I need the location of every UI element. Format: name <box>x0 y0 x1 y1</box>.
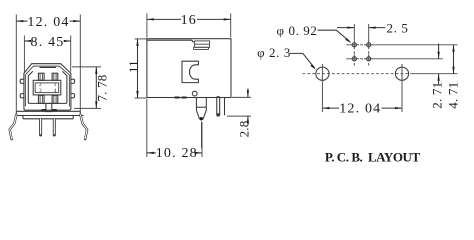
front view flange <box>16 111 84 115</box>
side view latch window <box>182 61 198 82</box>
front view solder pin right <box>53 119 56 135</box>
dimension 8.45 front view <box>24 35 70 72</box>
dimension 12.04 pcb <box>322 102 402 117</box>
svg-text:2. 71: 2. 71 <box>429 82 444 109</box>
leader dia 0.92 <box>318 30 352 43</box>
dimension 2.5 pcb <box>337 21 408 41</box>
pcb small hole top-left <box>350 40 359 49</box>
front view center bottom tab <box>46 103 52 111</box>
pcb large hole right <box>395 64 408 112</box>
side view rear step and latch catch <box>192 40 209 49</box>
svg-text:8. 45: 8. 45 <box>31 35 65 50</box>
pcb small hole top-right <box>364 40 373 49</box>
svg-text:2.8: 2.8 <box>236 121 251 138</box>
front view contact slot bottom-left <box>38 95 44 103</box>
dimension 4.71 pcb <box>445 45 460 109</box>
front view side latch tab lower-right <box>71 94 75 98</box>
dimension 7.78 front view right <box>72 67 110 109</box>
svg-text:4: 4 <box>54 88 57 94</box>
front view contact slot bottom-right <box>52 95 58 103</box>
side view pin stubs on bottom line <box>175 97 180 99</box>
front view base plate <box>23 116 73 119</box>
side view rear pin edge <box>224 98 226 116</box>
front view contact slot top-right <box>52 73 58 80</box>
pcb large hole left <box>316 64 329 112</box>
pcb small hole bottom-right <box>364 54 373 61</box>
dimension 11 side view <box>126 39 147 98</box>
svg-text:7. 78: 7. 78 <box>95 75 110 102</box>
dimension 2.71 pcb <box>429 44 444 109</box>
side view locating peg <box>196 98 206 121</box>
front view left mounting leg <box>10 115 17 139</box>
leader dia 2.3 <box>290 53 316 70</box>
pcb small hole row extension lines <box>346 45 457 66</box>
dimension 12.04 front view <box>16 15 80 112</box>
front view shell inner contour <box>25 66 69 106</box>
svg-text:16: 16 <box>181 13 197 28</box>
front view side latch tab lower-left <box>20 94 24 98</box>
svg-text:12. 04: 12. 04 <box>27 15 69 30</box>
svg-text:3: 3 <box>39 88 42 94</box>
svg-text:φ 2. 3: φ 2. 3 <box>257 45 291 60</box>
side view body <box>147 39 231 98</box>
front view side latch tab upper-right <box>71 79 75 83</box>
svg-text:12. 04: 12. 04 <box>339 102 381 117</box>
pcb horizontal centerline <box>303 73 458 75</box>
front view right mounting leg <box>81 115 88 139</box>
front view side latch tab upper-left <box>20 79 24 83</box>
svg-text:10. 28: 10. 28 <box>156 146 198 161</box>
dimension 16 side view <box>147 13 231 38</box>
side view rivet <box>192 91 197 96</box>
front view contact slot top-left <box>38 73 44 80</box>
front view solder pin left <box>39 119 42 135</box>
svg-text:P. C. B. LAYOUT: P. C. B. LAYOUT <box>325 150 421 165</box>
pcb small hole bottom-left <box>350 54 359 61</box>
side view peg centerline <box>201 122 203 149</box>
svg-text:φ 0. 92: φ 0. 92 <box>277 23 318 38</box>
front view recess opening <box>28 71 67 103</box>
dimension 10.28 side view <box>147 99 202 161</box>
dimension 2.8 side view <box>227 89 251 138</box>
front view shell outer contour <box>24 64 71 110</box>
side view solder pin <box>216 98 220 115</box>
front view contact housing <box>33 80 61 95</box>
front view pin roots <box>42 109 46 111</box>
svg-text:4. 71: 4. 71 <box>445 82 460 109</box>
front view recess far top edge <box>40 66 57 68</box>
svg-text:2. 5: 2. 5 <box>387 21 409 36</box>
svg-text:11: 11 <box>126 60 141 73</box>
